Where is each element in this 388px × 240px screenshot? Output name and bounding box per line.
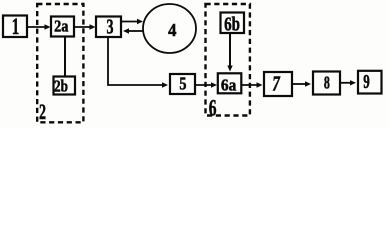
svg-text:3: 3	[107, 14, 114, 38]
box 2a	[51, 16, 74, 36]
box 8	[313, 72, 340, 95]
svg-text:6a: 6a	[221, 75, 236, 94]
svg-text:2a: 2a	[54, 16, 69, 35]
svg-text:2: 2	[39, 99, 46, 124]
svg-text:8: 8	[324, 73, 330, 93]
wire 4 to 3 (bottom, arrow left)	[123, 28, 143, 33]
svg-text:9: 9	[363, 71, 370, 93]
wire 5 to 6a	[195, 82, 217, 87]
svg-text:6: 6	[209, 96, 217, 121]
wire 8 to 9	[340, 80, 356, 85]
box 5	[170, 73, 195, 94]
svg-text:2b: 2b	[54, 76, 68, 95]
wire 3 to 4 (top, arrow right)	[121, 19, 143, 24]
box 6a	[218, 73, 242, 94]
svg-text:1: 1	[12, 14, 20, 40]
box 1	[3, 14, 27, 40]
box 6b	[221, 13, 245, 36]
box 7	[264, 72, 292, 96]
wire 3 to 5	[108, 37, 168, 88]
svg-text:5: 5	[179, 73, 186, 93]
svg-text:7: 7	[272, 72, 280, 96]
box 9	[358, 71, 382, 94]
box 3	[96, 14, 121, 38]
box 2b	[54, 76, 76, 95]
wire 6b to 6a	[227, 33, 232, 72]
circle 4	[143, 4, 196, 53]
wire 7 to 8	[292, 81, 311, 86]
dashed box 2	[37, 4, 83, 122]
wire 2a to 2b	[64, 37, 66, 77]
wire 1 to 2a	[27, 24, 51, 29]
wire 6a to 7	[241, 82, 262, 87]
dashed box 6	[206, 4, 250, 116]
wire 2a to 3	[74, 24, 96, 29]
svg-text:4: 4	[168, 20, 176, 40]
svg-text:6b: 6b	[224, 14, 240, 36]
